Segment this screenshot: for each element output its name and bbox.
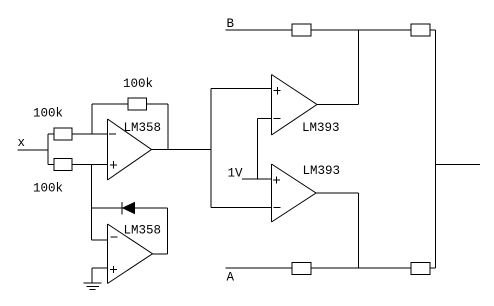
wire bottom branch stub — [48, 164, 54, 166]
wire junction down to U2 inverting — [91, 165, 93, 241]
wire input splitter vertical — [47, 134, 49, 165]
wire feedback left vertical — [91, 104, 93, 134]
wire U1 output — [152, 149, 212, 151]
wire output stub — [436, 164, 481, 166]
wire U3 non-inverting input — [211, 88, 271, 90]
U4 minus pin mark — [274, 207, 281, 209]
U1 minus pin mark — [109, 133, 116, 135]
wire diode right vertical — [167, 208, 169, 254]
svg-text:B: B — [227, 17, 235, 31]
svg-text:100k: 100k — [33, 182, 63, 196]
wire middle bus vertical — [210, 89, 212, 208]
resistor R5 (B line right) — [411, 24, 430, 36]
wire 1V to U4 non-inverting — [242, 178, 271, 180]
wire U4 output — [316, 192, 359, 194]
wire feedback top right — [147, 103, 169, 105]
svg-text:x: x — [18, 136, 26, 150]
wire A line middle — [311, 267, 411, 269]
wire U3 output — [317, 104, 359, 106]
wire feedback top left — [92, 103, 128, 105]
svg-text:100k: 100k — [33, 107, 63, 121]
svg-text:LM358: LM358 — [124, 224, 162, 238]
op-amp U1 LM358 — [107, 119, 109, 180]
wire U2 output stub — [153, 253, 168, 255]
resistor R1 100k — [54, 128, 72, 140]
wire B line right stub — [430, 29, 436, 31]
wire B line middle — [311, 29, 411, 31]
ground lead — [91, 268, 93, 283]
svg-text:100k: 100k — [123, 77, 153, 91]
ground symbol — [84, 282, 102, 284]
diode D1 triangle — [123, 203, 135, 214]
U2 plus pin mark — [110, 269, 117, 271]
wire U3 inverting input — [258, 118, 272, 120]
wire top branch stub — [48, 133, 54, 135]
diode D1 cathode bar — [121, 202, 123, 215]
wire B line left — [226, 29, 293, 31]
svg-text:LM393: LM393 — [303, 164, 341, 178]
svg-text:LM393: LM393 — [302, 121, 340, 135]
wire input from x — [18, 149, 49, 151]
U4 plus pin mark — [273, 179, 280, 181]
resistor R3 100k feedback — [128, 98, 147, 110]
wire diode feedback horizontal — [92, 207, 168, 209]
wire right bus vertical — [435, 30, 437, 268]
op-amp U2 LM358 — [107, 224, 109, 284]
resistor R6 (A line) — [292, 263, 311, 275]
resistor R4 (B line) — [292, 24, 311, 36]
wire U3 output vertical to B line — [358, 30, 360, 105]
svg-text:LM358: LM358 — [124, 121, 162, 135]
U3 minus pin mark — [274, 118, 281, 120]
wire U2 non-inverting input — [92, 267, 108, 269]
wire R1 to inverting input — [72, 133, 107, 135]
svg-text:1V: 1V — [228, 167, 244, 181]
wire feedback right vertical — [167, 104, 169, 150]
wire A line right stub — [430, 267, 436, 269]
resistor R2 100k — [54, 159, 72, 171]
wire U2 inverting input — [92, 239, 108, 241]
resistor R7 (A line right) — [411, 263, 430, 275]
wire U4 inverting input — [211, 207, 271, 209]
wire R2 to non-inverting input — [72, 164, 107, 166]
U3 plus pin mark — [274, 90, 281, 92]
wire 1V vertical — [257, 119, 259, 180]
U1 plus pin mark — [110, 164, 117, 166]
wire U4 output vertical to A line — [358, 193, 360, 268]
U2 minus pin mark — [111, 236, 118, 238]
comparator U3 LM393 — [271, 75, 273, 136]
svg-text:A: A — [227, 271, 235, 285]
comparator U4 LM393 — [271, 164, 273, 222]
wire A line left — [226, 267, 293, 269]
